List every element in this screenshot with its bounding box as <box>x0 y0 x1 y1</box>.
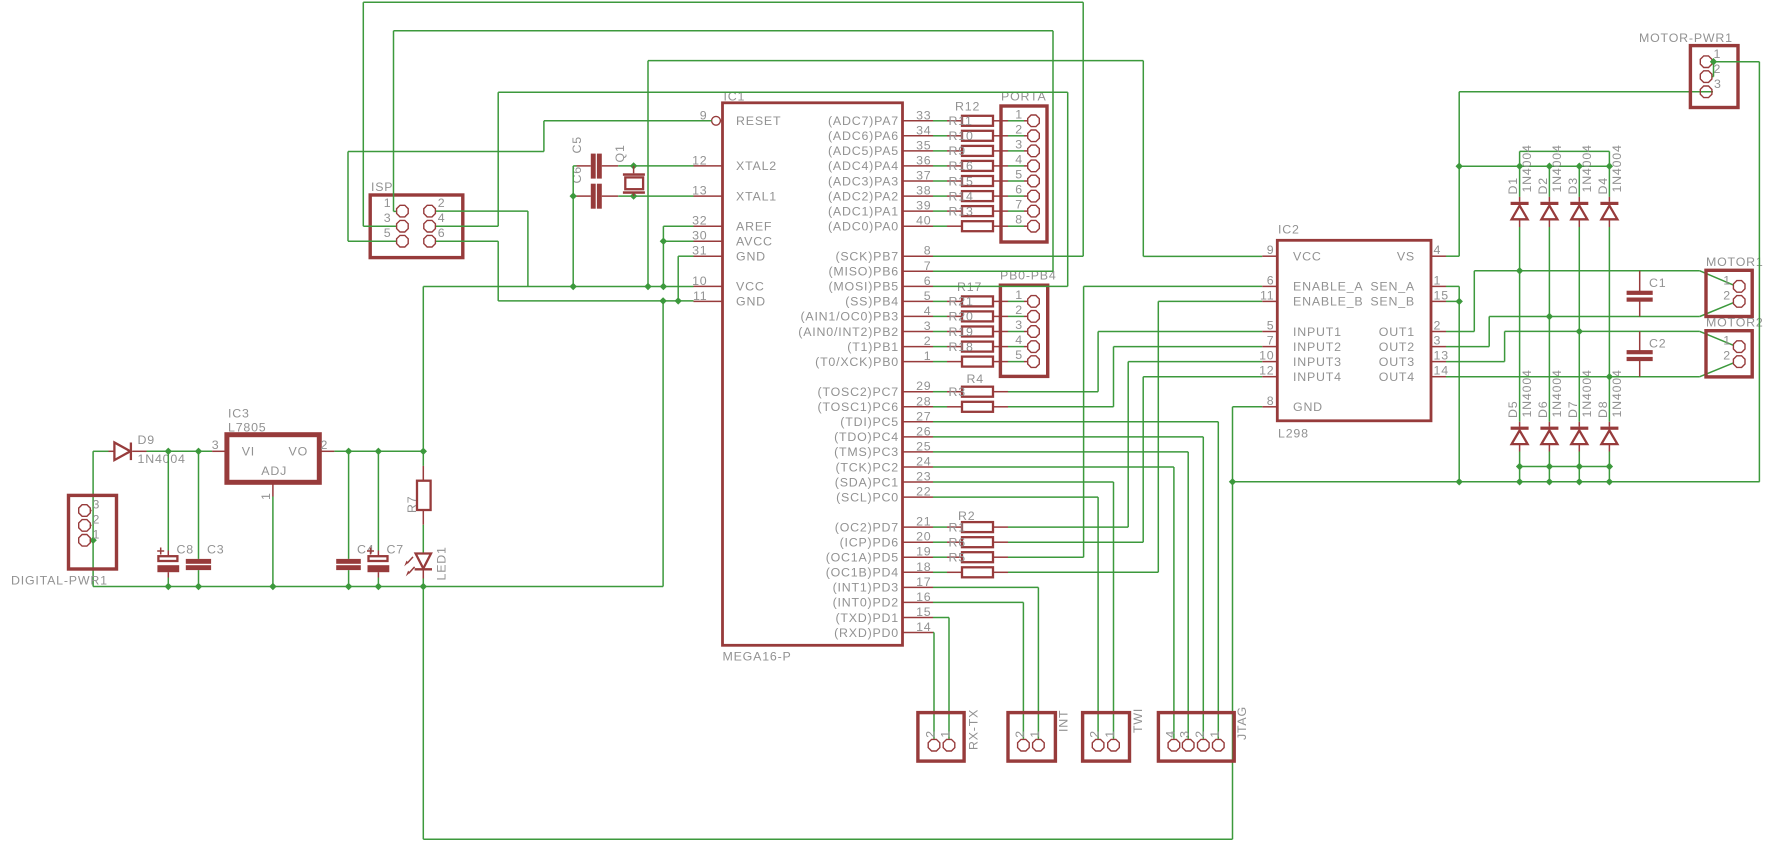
pin 6 (MOSI)PB5 of IC1 <box>903 285 934 287</box>
svg-text:1N4004: 1N4004 <box>1520 144 1534 192</box>
svg-text:(INT1)PD3: (INT1)PD3 <box>833 581 899 595</box>
resistor R20 at row 13 <box>947 315 962 317</box>
svg-text:37: 37 <box>916 169 931 183</box>
pin 8 GND of IC2 <box>1262 406 1277 408</box>
svg-text:XTAL1: XTAL1 <box>736 189 777 203</box>
svg-text:SEN_A: SEN_A <box>1370 280 1415 294</box>
IC IC2 L298 body <box>1277 240 1431 420</box>
label JTAG <box>1235 706 1249 740</box>
svg-text:4: 4 <box>1163 730 1177 738</box>
pin 38 (ADC2)PA2 of IC1 <box>903 195 934 197</box>
svg-text:(RXD)PD0: (RXD)PD0 <box>834 626 899 640</box>
svg-text:1: 1 <box>1103 730 1117 738</box>
svg-text:(SS)PB4: (SS)PB4 <box>845 295 899 309</box>
pin 39 (ADC1)PA1 of IC1 <box>903 210 934 212</box>
resistor R1 at row 27 <box>947 526 962 528</box>
label C6 <box>570 166 584 183</box>
svg-text:8: 8 <box>1267 394 1275 408</box>
wire C5 C6 left plates to VCC row <box>573 165 576 167</box>
wire IC1 PA2 to resistor <box>933 195 947 197</box>
svg-text:33: 33 <box>916 108 931 122</box>
svg-text:4: 4 <box>924 304 932 318</box>
label D1 <box>1506 177 1520 194</box>
svg-text:(ADC0)PA0: (ADC0)PA0 <box>828 220 899 234</box>
svg-text:ADJ: ADJ <box>261 464 287 478</box>
connector PB0-PB4 <box>1000 285 1047 376</box>
svg-text:MOTOR-PWR1: MOTOR-PWR1 <box>1639 31 1733 45</box>
wire R7 to LED1 <box>422 525 424 553</box>
wire IC1 PB4 to resistor <box>933 300 947 302</box>
svg-text:6: 6 <box>924 274 932 288</box>
svg-text:AREF: AREF <box>736 220 772 234</box>
svg-text:VCC: VCC <box>736 280 765 294</box>
wire ground rail <box>93 586 663 588</box>
wire net GND row to IC1 GND pin11 <box>498 300 693 302</box>
svg-text:C4: C4 <box>357 543 374 557</box>
pin 40 (ADC0)PA0 of IC1 <box>903 225 934 227</box>
wire IC1 PD pin to resistor <box>933 526 947 528</box>
capacitor C7 <box>377 451 379 550</box>
pin 5 INPUT1 of IC2 <box>1262 331 1277 333</box>
svg-text:C3: C3 <box>207 543 224 557</box>
wire net PC5 TDI to JTAG pin1 <box>933 421 1218 423</box>
wire net XTAL2 row <box>618 165 693 167</box>
svg-text:2: 2 <box>1013 730 1027 738</box>
svg-text:R14: R14 <box>949 189 974 203</box>
resistor R19 at row 14 <box>947 331 962 333</box>
svg-text:3: 3 <box>1015 318 1023 332</box>
svg-text:4: 4 <box>438 211 446 225</box>
wire IC1 PA0 to resistor <box>933 225 947 227</box>
resistor R6 at row 28 <box>947 541 962 543</box>
svg-text:2: 2 <box>321 438 329 452</box>
wire IC1 PB1 to resistor <box>933 346 947 348</box>
pin 25 (TMS)PC3 of IC1 <box>903 451 934 453</box>
diode D1 <box>1519 166 1521 197</box>
pin 35 (ADC5)PA5 of IC1 <box>903 150 934 152</box>
svg-text:2: 2 <box>1015 303 1023 317</box>
svg-text:6: 6 <box>438 226 446 240</box>
svg-text:1N4004: 1N4004 <box>1580 144 1594 192</box>
label TWI <box>1131 708 1145 733</box>
wire resistor to PORTA pin 6 <box>1008 195 1024 197</box>
svg-text:(ADC4)PA4: (ADC4)PA4 <box>828 159 899 173</box>
label D8 <box>1596 401 1610 418</box>
svg-text:32: 32 <box>692 214 707 228</box>
pin 26 (TDO)PC4 of IC1 <box>903 436 934 438</box>
svg-text:VCC: VCC <box>1293 250 1322 264</box>
svg-text:(TDO)PC4: (TDO)PC4 <box>834 430 899 444</box>
pin 11 GND of IC1 <box>694 300 723 302</box>
wire IC1 PC7 to resistor R3 <box>933 391 947 393</box>
wire ground bottom loop <box>422 587 424 840</box>
wire resistor to PORTA pin 3 <box>1008 150 1024 152</box>
svg-text:15: 15 <box>1434 288 1449 302</box>
wire net OUT3 from IC2 to D3 and MOTOR2 pin1 <box>1446 361 1505 363</box>
svg-text:1: 1 <box>1723 273 1731 287</box>
svg-text:(MISO)PB6: (MISO)PB6 <box>828 265 899 279</box>
pin 19 (OC1A)PD5 of IC1 <box>903 556 934 558</box>
pin 13 OUT3 of IC2 <box>1431 361 1446 363</box>
svg-text:15: 15 <box>916 605 931 619</box>
pin 28 (TOSC1)PC6 of IC1 <box>903 406 934 408</box>
pin 27 (TDI)PC5 of IC1 <box>903 421 934 423</box>
connector RX-TX <box>918 713 964 762</box>
svg-text:OUT2: OUT2 <box>1379 340 1415 354</box>
wire net MISO: ISP pin1 to IC1 PB6 <box>393 31 395 212</box>
wire net PD0 RXD to RX-TX pin2 <box>933 632 934 634</box>
pin 7 (MISO)PB6 of IC1 <box>903 270 934 272</box>
wire D4 anode to OUT4 row and D8 cathode <box>1608 227 1610 422</box>
wire net VIN from DIGITAL-PWR1 pin1 to D9 anode <box>93 450 108 452</box>
wire net VCC to AREF and AVCC of IC1 <box>663 225 693 227</box>
svg-text:D6: D6 <box>1536 401 1550 418</box>
svg-text:13: 13 <box>1434 349 1449 363</box>
capacitor C5 <box>577 165 591 167</box>
svg-text:(MOSI)PB5: (MOSI)PB5 <box>828 280 899 294</box>
pin 8 (SCK)PB7 of IC1 <box>903 255 934 257</box>
capacitor C8 <box>167 451 169 550</box>
svg-text:D5: D5 <box>1506 401 1520 418</box>
svg-text:ENABLE_A: ENABLE_A <box>1293 280 1363 294</box>
svg-text:VO: VO <box>289 445 309 459</box>
svg-text:C2: C2 <box>1649 337 1666 351</box>
svg-text:1: 1 <box>939 730 953 738</box>
svg-text:INPUT1: INPUT1 <box>1293 325 1342 339</box>
svg-text:5: 5 <box>1015 168 1023 182</box>
svg-text:C8: C8 <box>177 543 194 557</box>
svg-text:R21: R21 <box>949 295 974 309</box>
svg-text:7: 7 <box>1267 334 1275 348</box>
svg-text:D8: D8 <box>1596 401 1610 418</box>
svg-text:IC2: IC2 <box>1278 223 1300 237</box>
svg-text:34: 34 <box>916 123 931 137</box>
svg-text:3: 3 <box>1178 730 1192 738</box>
wire net OUT4 from IC2 to D4 and MOTOR2 pin2 <box>1446 376 1700 378</box>
resistor R15 at row 4 <box>947 180 962 182</box>
svg-text:(TCK)PC2: (TCK)PC2 <box>835 460 899 474</box>
svg-text:3: 3 <box>1434 334 1442 348</box>
pin 24 (TCK)PC2 of IC1 <box>903 466 934 468</box>
wire net VS from IC2 pin4 up to MOTOR-PWR1 pin3 <box>1446 255 1459 257</box>
svg-text:8: 8 <box>1015 213 1023 227</box>
wire net +5V from IC3 VO <box>319 450 334 452</box>
svg-text:5: 5 <box>1267 319 1275 333</box>
pin 6 ENABLE_A of IC2 <box>1262 285 1277 287</box>
svg-text:(TOSC1)PC6: (TOSC1)PC6 <box>818 400 899 414</box>
svg-text:R1: R1 <box>949 520 966 534</box>
svg-text:29: 29 <box>916 379 931 393</box>
svg-text:(SCK)PB7: (SCK)PB7 <box>835 250 899 264</box>
wire net VCC row to IC1 VCC pin10 <box>423 286 693 288</box>
diode D2 <box>1548 166 1550 197</box>
svg-text:(ADC3)PA3: (ADC3)PA3 <box>828 174 899 188</box>
pin 11 ENABLE_B of IC2 <box>1262 300 1277 302</box>
svg-text:(ADC2)PA2: (ADC2)PA2 <box>828 189 899 203</box>
svg-text:GND: GND <box>736 295 766 309</box>
pin numbers INT <box>1013 730 1027 738</box>
wire resistor to PB0-PB4 pin 3 <box>1008 331 1024 333</box>
svg-text:22: 22 <box>916 485 931 499</box>
connector MOTOR-PWR1 <box>1690 46 1738 108</box>
svg-text:INT: INT <box>1056 710 1070 732</box>
pin 4 (AIN1/OC0)PB3 of IC1 <box>903 315 934 317</box>
wire D6 anode to ground bus <box>1548 452 1550 482</box>
svg-text:31: 31 <box>692 244 707 258</box>
wire D3 anode to OUT3 row and D7 cathode <box>1578 227 1580 422</box>
svg-text:25: 25 <box>916 439 931 453</box>
svg-text:1: 1 <box>1015 288 1023 302</box>
wire D5 anode to ground bus <box>1519 452 1521 482</box>
pin numbers RX-TX <box>924 730 938 738</box>
wire net VCC: ISP pin2 jog down to VCC row <box>436 210 528 212</box>
pin 2 (T1)PB1 of IC1 <box>903 346 934 348</box>
crystal Q1 <box>633 166 635 173</box>
wire net MOSI: ISP pin4 to IC1 PB5 <box>436 225 498 227</box>
wire resistor to PB0-PB4 pin 2 <box>1008 315 1024 317</box>
svg-text:3: 3 <box>924 319 932 333</box>
connector DIGITAL-PWR1 <box>69 495 117 569</box>
wire ground bridge D5 to D8 <box>1520 466 1610 468</box>
svg-text:C1: C1 <box>1649 276 1666 290</box>
svg-text:1N4004: 1N4004 <box>1550 144 1564 192</box>
resistor unlabeled resistor at row 30 <box>947 571 962 573</box>
pin 36 (ADC4)PA4 of IC1 <box>903 165 934 167</box>
wire ground bus horizontal <box>1233 481 1760 483</box>
pin 23 (SDA)PC1 of IC1 <box>903 481 934 483</box>
resistor R3 at row 18 <box>947 391 962 393</box>
svg-text:1: 1 <box>259 492 273 500</box>
svg-text:ENABLE_B: ENABLE_B <box>1293 295 1363 309</box>
wire VS bus over diodes D1-D4 <box>1459 165 1609 167</box>
svg-text:(TDI)PC5: (TDI)PC5 <box>840 415 899 429</box>
resistor unlabeled resistor at row 16 <box>947 361 962 363</box>
svg-text:(SCL)PC0: (SCL)PC0 <box>836 490 899 504</box>
wire net PD2 INT0 to INT pin2 <box>933 601 1023 603</box>
pin numbers JTAG <box>1163 730 1177 738</box>
connector TWI <box>1083 713 1130 762</box>
resistor R11 at row 0 <box>947 120 962 122</box>
pin 1 ADJ of IC3 <box>272 482 274 496</box>
svg-text:XTAL2: XTAL2 <box>736 159 777 173</box>
connector JTAG <box>1158 713 1234 762</box>
svg-text:L298: L298 <box>1278 427 1309 441</box>
pin 33 (ADC7)PA7 of IC1 <box>903 120 934 122</box>
svg-text:1N4004: 1N4004 <box>1610 144 1624 192</box>
label D6 <box>1536 401 1550 418</box>
wire resistor to PORTA pin 8 <box>1008 225 1024 227</box>
wire net PC7 through R3 to IC2 INPUT1 <box>1008 391 1098 393</box>
pin 15 (TXD)PD1 of IC1 <box>903 617 934 619</box>
label 1N4004 for D5 <box>1520 369 1534 417</box>
pin 10 VCC of IC1 <box>694 285 723 287</box>
wire resistor to PORTA pin 4 <box>1008 165 1024 167</box>
svg-text:6: 6 <box>1015 183 1023 197</box>
svg-text:2: 2 <box>924 334 932 348</box>
label INT <box>1056 710 1070 732</box>
wire net VCC top loop to IC2 VCC <box>647 61 649 287</box>
pin 21 (OC2)PD7 of IC1 <box>903 526 934 528</box>
capacitor C6 <box>577 195 591 197</box>
wire resistor to PORTA pin 2 <box>1008 135 1024 137</box>
svg-text:INPUT2: INPUT2 <box>1293 340 1342 354</box>
resistor R10 at row 1 <box>947 135 962 137</box>
svg-text:INPUT3: INPUT3 <box>1293 355 1342 369</box>
wire IC1 PD pin to resistor <box>933 541 947 543</box>
LED LED1 <box>422 553 424 554</box>
label R7 <box>405 496 419 513</box>
svg-text:1: 1 <box>1714 47 1722 61</box>
wire MOTOR-PWR1 pins 1-2 jumper to ground right rail <box>1712 61 1759 63</box>
pin 16 (INT0)PD2 of IC1 <box>903 601 934 603</box>
svg-text:(ICP)PD6: (ICP)PD6 <box>840 536 899 550</box>
wire net GND riser to IC1 GND pin31 <box>677 256 679 301</box>
wire IC1 PA7 to resistor <box>933 120 947 122</box>
svg-text:3: 3 <box>384 211 392 225</box>
label C5 <box>570 136 584 153</box>
svg-text:23: 23 <box>916 470 931 484</box>
resistor unlabeled resistor at row 19 <box>947 406 962 408</box>
svg-text:26: 26 <box>916 424 931 438</box>
label LED1 <box>434 546 448 580</box>
pin 14 (RXD)PD0 of IC1 <box>903 632 934 634</box>
wire resistor to PB0-PB4 pin 4 <box>1008 346 1024 348</box>
svg-text:R6: R6 <box>949 536 966 550</box>
wire IC1 PA5 to resistor <box>933 150 947 152</box>
svg-text:L7805: L7805 <box>228 421 266 435</box>
resistor unlabeled resistor at row 7 <box>947 225 962 227</box>
pin 20 (ICP)PD6 of IC1 <box>903 541 934 543</box>
label D4 <box>1596 177 1610 194</box>
capacitor C2 <box>1639 331 1641 351</box>
pin 18 (OC1B)PD4 of IC1 <box>903 571 934 573</box>
svg-text:(TOSC2)PC7: (TOSC2)PC7 <box>818 385 899 399</box>
svg-text:1: 1 <box>384 196 392 210</box>
wire net PC4 TDO to JTAG pin2 <box>933 436 1203 438</box>
pin 3 OUT2 of IC2 <box>1431 346 1446 348</box>
resistor R18 at row 15 <box>947 346 962 348</box>
svg-text:4: 4 <box>1015 333 1023 347</box>
diode D3 <box>1578 166 1580 197</box>
diode D8 <box>1608 422 1610 427</box>
svg-text:VI: VI <box>242 445 255 459</box>
svg-text:7: 7 <box>924 259 932 273</box>
svg-text:C5: C5 <box>570 136 584 153</box>
label 1N4004 for D1 <box>1520 144 1534 192</box>
svg-text:R20: R20 <box>949 310 974 324</box>
label 1N4004 for D3 <box>1580 144 1594 192</box>
svg-text:3: 3 <box>93 498 101 512</box>
resistor R14 at row 5 <box>947 195 962 197</box>
svg-text:R3: R3 <box>949 385 966 399</box>
wire ADJ to ground rail <box>272 497 274 587</box>
pin numbers TWI <box>1088 730 1102 738</box>
svg-text:RESET: RESET <box>736 114 781 128</box>
svg-text:9: 9 <box>1267 243 1275 257</box>
svg-text:INPUT4: INPUT4 <box>1293 370 1342 384</box>
svg-text:SEN_B: SEN_B <box>1370 295 1415 309</box>
svg-text:1: 1 <box>1028 730 1042 738</box>
svg-text:12: 12 <box>692 153 707 167</box>
svg-text:(T0/XCK)PB0: (T0/XCK)PB0 <box>815 355 899 369</box>
svg-text:21: 21 <box>916 515 931 529</box>
wire VS bridge D1 to D4 <box>1520 150 1610 152</box>
IC IC1 MEGA16-P body <box>723 103 903 646</box>
svg-text:D7: D7 <box>1566 401 1580 418</box>
svg-text:(OC1A)PD5: (OC1A)PD5 <box>826 551 899 565</box>
svg-text:(AIN0/INT2)PB2: (AIN0/INT2)PB2 <box>798 325 899 339</box>
label 1N4004 for D4 <box>1610 144 1624 192</box>
svg-text:11: 11 <box>1260 288 1274 302</box>
svg-text:R7: R7 <box>405 496 419 513</box>
wire net VIN from D9 cathode to IC3 VI <box>147 450 213 452</box>
svg-text:OUT3: OUT3 <box>1379 355 1415 369</box>
label 1N4004 for D7 <box>1580 369 1594 417</box>
svg-text:12: 12 <box>1259 364 1274 378</box>
svg-text:1: 1 <box>924 349 932 363</box>
wire IC1 PA3 to resistor <box>933 180 947 182</box>
svg-text:14: 14 <box>1434 364 1449 378</box>
pin 14 OUT4 of IC2 <box>1431 376 1446 378</box>
wire IC1 PA1 to resistor <box>933 210 947 212</box>
svg-text:C7: C7 <box>387 543 404 557</box>
pin 15 SEN_B of IC2 <box>1431 300 1446 302</box>
svg-text:R12: R12 <box>955 100 980 114</box>
svg-text:D4: D4 <box>1596 177 1610 194</box>
svg-text:5: 5 <box>384 226 392 240</box>
svg-text:28: 28 <box>916 394 931 408</box>
svg-text:5: 5 <box>1015 348 1023 362</box>
svg-text:AVCC: AVCC <box>736 235 773 249</box>
svg-text:JTAG: JTAG <box>1235 706 1249 740</box>
svg-text:19: 19 <box>916 545 931 559</box>
pin 17 (INT1)PD3 of IC1 <box>903 586 934 588</box>
wire net SEN_A SEN_B tied to ground bus <box>1446 285 1459 287</box>
svg-text:6: 6 <box>1267 273 1275 287</box>
wire net PD1 TXD to RX-TX pin1 <box>933 617 949 619</box>
pin 30 AVCC of IC1 <box>694 240 723 242</box>
wire IC1 PB2 to resistor <box>933 331 947 333</box>
wire net OUT1 from IC2 to D1 and MOTOR1 pin1 <box>1446 331 1474 333</box>
svg-text:1: 1 <box>93 527 101 541</box>
resistor R9 at row 2 <box>947 150 962 152</box>
svg-text:R16: R16 <box>949 159 974 173</box>
svg-text:R13: R13 <box>949 204 974 218</box>
svg-text:3: 3 <box>1015 137 1023 151</box>
pin 29 (TOSC2)PC7 of IC1 <box>903 391 934 393</box>
svg-text:R15: R15 <box>949 174 974 188</box>
wire D7 anode to ground bus <box>1578 452 1580 482</box>
wire net PC0 SCL to TWI pin2 <box>933 496 1098 498</box>
wire resistor to PORTA pin 5 <box>1008 180 1024 182</box>
svg-text:D9: D9 <box>138 433 155 447</box>
label 1N4004 for D2 <box>1550 144 1564 192</box>
svg-text:36: 36 <box>916 153 931 167</box>
svg-text:2: 2 <box>1193 730 1207 738</box>
label D5 <box>1506 401 1520 418</box>
wire IC1 PB0 to resistor <box>933 361 947 363</box>
connector PORTA <box>1001 106 1047 242</box>
svg-text:30: 30 <box>692 229 707 243</box>
wire IC1 PA6 to resistor <box>933 135 947 137</box>
wire net XTAL1 row <box>618 195 693 197</box>
wire net PC3 TMS to JTAG pin3 <box>933 451 1188 453</box>
svg-text:(ADC6)PA6: (ADC6)PA6 <box>828 129 899 143</box>
pin 7 INPUT2 of IC2 <box>1262 346 1277 348</box>
svg-text:(INT0)PD2: (INT0)PD2 <box>833 596 899 610</box>
svg-text:GND: GND <box>1293 400 1323 414</box>
pin 12 XTAL2 of IC1 <box>694 165 723 167</box>
